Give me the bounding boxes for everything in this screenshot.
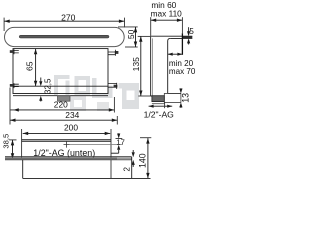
clamp top-right: post: [115, 50, 117, 56]
watermark letter 4: [122, 83, 139, 109]
svg-text:50: 50: [126, 29, 136, 39]
mounting body: second bottom edge: [13, 95, 108, 97]
side view: wall line: [181, 33, 183, 55]
dimension 270: dim line: [4, 20, 124, 22]
dimension min60/max110: extension right: [181, 17, 183, 33]
thread bottom line: [152, 103, 165, 105]
clamp top-right: screw head: [115, 51, 119, 54]
dimension 5: upper arrow: [187, 31, 190, 36]
dimension 38,5: top arrow: [11, 140, 14, 146]
dimension 135: top arrow: [139, 36, 142, 42]
side view: top plate underside: [170, 37, 192, 39]
dimension 50: top arrow: [134, 27, 137, 33]
dimension 2: upper arrow: [132, 152, 135, 157]
front view: lip bar dark part: [5, 157, 117, 160]
clamp top-right: rails: [108, 52, 115, 55]
dimension 234: dim line: [10, 119, 117, 121]
dimension 13: lower arrow: [179, 102, 182, 107]
watermark letter 2: [75, 76, 91, 95]
dimension 17: shaft connector: [111, 152, 119, 154]
dimension 50: extension line bottom: [125, 46, 138, 48]
clamp bottom-right: post: [116, 83, 118, 89]
dimension 38,5: bottom arrow: [11, 153, 14, 159]
side view: panel bottom edge: [151, 95, 168, 97]
dimension 234: extension left: [9, 88, 11, 125]
dimension 234: left arrow: [10, 119, 16, 122]
dimension 220: right arrow: [109, 108, 115, 111]
side view: outlet connector box: [164, 94, 181, 103]
dimension 50: extension line top: [118, 26, 138, 28]
svg-text:140: 140: [137, 153, 147, 168]
dimension 135: dim line: [140, 36, 142, 96]
front view: centerline: [70, 144, 123, 146]
watermark letter 3: [92, 78, 113, 98]
dimension 220: right extension: [113, 97, 115, 113]
clamp bottom-right: rails: [108, 84, 117, 88]
svg-text:1/2"-AG: 1/2"-AG: [144, 109, 175, 119]
front view: body box right edge: [131, 157, 133, 179]
clamp bottom-left: rails: [13, 84, 19, 86]
dimension 200: left arrow: [23, 132, 29, 135]
dimension 65: top arrow: [34, 49, 37, 55]
watermark lower blob 6: [70, 96, 86, 111]
front view: panel top edge line1: [22, 139, 111, 141]
dimension 234: right arrow: [112, 119, 118, 122]
svg-text:234: 234: [65, 110, 79, 120]
side view: top plate top edge: [151, 35, 192, 37]
svg-text:135: 135: [131, 57, 141, 72]
dimension 270: extension line left: [3, 18, 5, 31]
front view: lip top line: [5, 156, 132, 158]
dimension 32,5: lower arrow: [39, 96, 42, 101]
side view: panel right edge with corner: [168, 38, 171, 93]
side view: outlet thread (gray): [152, 96, 164, 102]
thread extension line: [164, 102, 166, 108]
dimension 2: lower arrow: [132, 160, 135, 165]
svg-text:200: 200: [64, 123, 78, 133]
dimension min20/max70: left arrow: [168, 53, 173, 56]
side view: plate section in wall (dark): [182, 36, 192, 38]
side view: connector step line: [168, 93, 181, 95]
dimension 17: upper arrow: [117, 134, 120, 139]
front view: body box left edge: [22, 160, 24, 179]
svg-text:220: 220: [54, 100, 68, 110]
thread dim right arrow: [167, 105, 172, 108]
dimension 17: top tick: [116, 138, 123, 140]
svg-text:max 110: max 110: [151, 8, 183, 18]
clamp top-left: post: [13, 49, 15, 54]
watermark lower blob 7: [97, 102, 109, 111]
side view: front panel left edge outer: [150, 36, 152, 96]
dimension 140: top extension: [140, 137, 151, 139]
thread dim left arrow: [149, 105, 154, 108]
dimension 38,5: dim line: [12, 140, 14, 159]
dimension 32,5: upper arrow: [39, 81, 42, 86]
dimension 140: dim line: [147, 138, 149, 178]
dimension min60/max110: left arrow: [151, 19, 157, 22]
svg-text:38,5: 38,5: [2, 134, 11, 149]
dimension 17: lower arrow: [117, 145, 120, 150]
dimension min60/max110: dim line: [151, 19, 183, 21]
watermark letter bit 5: [119, 83, 123, 89]
mounting body: internal line: [13, 85, 108, 87]
dimension 2: lower shaft: [132, 164, 134, 167]
dimension 65: dim line: [35, 49, 37, 86]
watermark letter 1: [54, 75, 70, 95]
dimension 32,5: lower shaft: [40, 100, 42, 102]
dimension 38,5: bottom extension: [9, 158, 16, 160]
dimension 32,5: upper shaft: [40, 78, 42, 82]
clamp bottom-left: post: [13, 83, 15, 88]
dimension 13: upper shaft: [180, 87, 182, 90]
dimension 2: upper shaft: [132, 150, 134, 152]
inlet block (gray): [58, 96, 71, 101]
svg-text:5: 5: [189, 27, 194, 36]
svg-text:2: 2: [122, 166, 131, 171]
dimension min60/max110: extension left: [150, 17, 152, 36]
dimension 200: right arrow: [105, 132, 111, 135]
clamp top-left: rails: [13, 51, 19, 53]
dimension 5: upper arrow shaft: [188, 27, 190, 31]
clamp bottom-right: screw head: [114, 85, 118, 88]
svg-text:270: 270: [61, 12, 76, 22]
dimension 50: dim line: [135, 27, 137, 47]
dimension min20/max70: right arrow: [177, 53, 182, 56]
dimension 135: top extension: [138, 35, 151, 37]
dimension min60/max110: right arrow: [177, 19, 183, 22]
dimension 13: lower shaft: [180, 107, 182, 108]
dimension 135: bottom arrow: [139, 91, 142, 97]
dimension 270: right arrow: [119, 20, 125, 23]
dimension 220: dim line: [10, 109, 114, 111]
dimension 38,5: top extension: [9, 139, 16, 141]
dimension 5: lower arrow shaft: [188, 43, 190, 45]
dimension min20/max70: dim line: [168, 53, 183, 55]
front view: panel top edge line2: [22, 140, 111, 142]
dimension 135: bottom extension: [138, 95, 150, 97]
front view: body box bottom edge: [23, 177, 151, 179]
clamp top-left: screw head: [10, 50, 13, 53]
dimension 17: lower shaft: [118, 150, 120, 153]
top view: slot: [19, 35, 109, 38]
svg-text:17: 17: [116, 137, 124, 146]
dimension 13: upper arrow: [179, 89, 182, 94]
front view: lip bar light part: [117, 157, 131, 160]
dimension 50: bottom arrow: [134, 42, 137, 48]
dimension 200: dim line: [23, 132, 111, 134]
thread dim line: [149, 105, 173, 107]
side view: front panel left edge inner: [151, 38, 153, 95]
dimension 17: upper shaft: [118, 132, 120, 135]
front view: lip bar bottom edge: [5, 159, 132, 161]
dimension 234: extension right: [116, 116, 118, 125]
clamp bottom-left: screw head: [10, 84, 13, 87]
svg-text:32,5: 32,5: [43, 78, 52, 94]
svg-text:max 70: max 70: [169, 67, 196, 76]
dimension 140: bottom arrow: [146, 173, 149, 179]
front view: center cross: [64, 142, 70, 148]
dimension 65: bottom arrow: [34, 81, 37, 87]
top view: spout stadium outline: [5, 27, 125, 46]
dimension 140: top arrow: [146, 138, 149, 144]
dimension 200: extension left (long): [21, 129, 23, 159]
dimension 270: extension line right: [124, 18, 126, 28]
dimension 200: extension right (long): [110, 129, 112, 178]
svg-text:65: 65: [24, 61, 34, 71]
dimension 5: lower arrow: [187, 38, 190, 43]
dimension 220: left arrow: [13, 108, 18, 111]
mounting body rect (top view of in-wall unit): [13, 49, 108, 94]
svg-text:13: 13: [181, 93, 191, 103]
dimension 270: left arrow: [4, 20, 10, 23]
